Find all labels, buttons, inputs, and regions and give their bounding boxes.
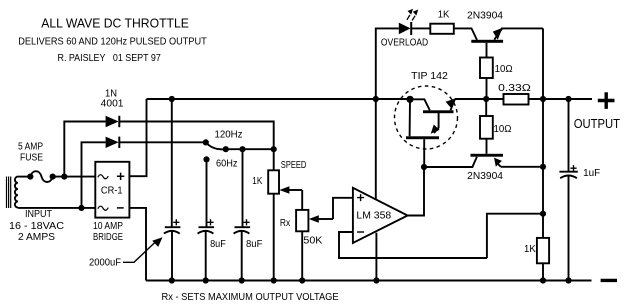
wire diode D1 cathode right then down to speed pot: [120, 122, 274, 171]
wire op-amp output right and up to Q2 base line: [408, 167, 424, 216]
wire TIP142 inner emitter down to op-amp output node: [423, 139, 425, 167]
bridge plus terminal symbol: [117, 173, 124, 180]
wire Q2 emitter right to output vertical: [501, 166, 543, 168]
junction dot rail at op-amp V-: [373, 277, 379, 283]
wire 1K to Q1 base: [454, 28, 477, 40]
wire op-amp V- pin to ground rail: [375, 233, 377, 281]
resistor R6 1K output body: [537, 238, 549, 263]
svg-text:OVERLOAD: OVERLOAD: [381, 37, 428, 48]
svg-text:1K: 1K: [252, 176, 262, 187]
svg-text:10Ω: 10Ω: [494, 124, 512, 135]
wire bridge plus output up to positive line: [129, 99, 146, 176]
wire 10ohm lower top to positive line junction: [485, 99, 487, 116]
svg-text:TIP 142: TIP 142: [411, 71, 448, 82]
svg-text:FUSE: FUSE: [20, 152, 43, 163]
wire transformer bottom to bridge AC bottom: [18, 207, 95, 209]
wire fuse to bridge AC top: [53, 176, 96, 178]
bridge minus terminal symbol: [117, 207, 124, 209]
svg-text:10Ω: 10Ω: [495, 64, 513, 75]
svg-text:5 AMP: 5 AMP: [18, 141, 43, 152]
wire 10ohm upper to positive line junction: [486, 78, 488, 99]
wire 0.33ohm right to output: [529, 98, 593, 100]
transistor Q1 2N3904 base bar: [471, 40, 503, 43]
svg-text:1K: 1K: [438, 10, 450, 21]
transistor Q2 emitter arrow from emitter wire to base bar: [494, 158, 502, 167]
svg-text:SPEED: SPEED: [281, 160, 307, 171]
junction dot rail at C1: [169, 277, 175, 283]
junction dot positive line at overload/op-amp branch: [373, 96, 379, 102]
wire 1K output bottom to ground rail: [542, 263, 544, 280]
svg-text:2N3904: 2N3904: [467, 10, 503, 21]
junction dot fuse line to diode branch: [61, 174, 67, 180]
TIP142 emitter arrow up to output line: [446, 98, 456, 110]
junction dot rail at speed pot: [271, 277, 277, 283]
junction dot rail at 1K output resistor: [540, 277, 546, 283]
svg-text:ALL WAVE DC THROTTLE: ALL WAVE DC THROTTLE: [41, 17, 189, 31]
svg-text:Rx: Rx: [280, 218, 290, 229]
LED D3 OVERLOAD: [399, 22, 411, 35]
bridge AC symbol top: [98, 175, 108, 179]
svg-text:LM 358: LM 358: [356, 210, 391, 221]
output negative terminal symbol: [601, 279, 617, 282]
Rx wiper arrow: [309, 215, 333, 223]
svg-text:BRIDGE: BRIDGE: [93, 232, 123, 243]
TIP142 outer emitter arrow down to inner base bar: [431, 113, 440, 134]
wire overload branch riser from positive line: [376, 28, 399, 99]
svg-text:2000uF: 2000uF: [89, 257, 121, 268]
TIP142 outer transistor base bar: [423, 110, 454, 113]
svg-text:8uF: 8uF: [210, 239, 226, 250]
wire Rx wiper to op-amp non-inverting input: [333, 198, 353, 219]
junction dot op-amp output node: [421, 164, 427, 170]
svg-text:R. PAISLEY 01 SEPT 97: R. PAISLEY 01 SEPT 97: [58, 52, 161, 64]
svg-text:1uF: 1uF: [583, 168, 600, 179]
capacitor C3 8uF: [234, 149, 251, 280]
wire op-amp inverting input left and down: [339, 232, 487, 258]
wire bridge minus output down to ground rail: [129, 208, 146, 281]
resistor R3 10ohm upper body: [480, 58, 493, 79]
capacitor C2 8uF: [198, 159, 215, 280]
switch 120Hz contact dot: [223, 146, 229, 152]
svg-text:1K: 1K: [524, 244, 536, 255]
svg-text:120Hz: 120Hz: [215, 130, 243, 141]
TIP142 wire dot to outer transistor base bar: [410, 99, 430, 110]
speed pot wiper arrow: [279, 186, 302, 194]
wire 120Hz contact to speed pot riser: [226, 148, 274, 150]
junction dot rail at C3: [239, 277, 245, 283]
switch 60Hz contact dot: [203, 156, 209, 162]
junction dot positive line at 10ohm resistors: [483, 96, 489, 102]
wire diode D2 cathode to switch pivot: [120, 141, 206, 143]
junction dot to capacitor C3: [239, 146, 245, 152]
op-amp U1 LM358 triangle: [353, 188, 408, 243]
junction dot output line at right vertical: [540, 96, 546, 102]
junction dot rail at C2: [203, 277, 209, 283]
op-amp non-inverting input symbol +: [357, 194, 364, 201]
TIP142 base junction dot: [406, 96, 413, 103]
TIP142 inner transistor base bar: [406, 136, 439, 139]
wire op-amp V+ pin to positive line: [375, 99, 377, 199]
svg-text:50K: 50K: [303, 235, 322, 246]
svg-text:60Hz: 60Hz: [216, 159, 238, 170]
wire transformer top to fuse: [18, 176, 30, 178]
svg-text:DELIVERS 60 AND 120Hz PULSED O: DELIVERS 60 AND 120Hz PULSED OUTPUT: [18, 36, 207, 48]
svg-text:2 AMPS: 2 AMPS: [18, 232, 55, 243]
junction dot right vertical at Q2 emitter: [540, 164, 546, 170]
svg-text:CR-1: CR-1: [101, 186, 123, 197]
TIP142 wire dot to inner transistor base bar: [409, 99, 411, 136]
fuse terminal dot right: [50, 174, 56, 180]
svg-text:2N3904: 2N3904: [467, 171, 503, 182]
diode D1 1N4001 upper: [106, 116, 120, 127]
junction dot feedback at output node: [540, 211, 546, 217]
svg-text:16 - 18VAC: 16 - 18VAC: [9, 221, 64, 232]
junction dot output line at C4: [565, 96, 571, 102]
wire positive supply line left section: [147, 98, 411, 100]
wire speed pot bottom to ground rail: [273, 194, 275, 281]
svg-text:OUTPUT: OUTPUT: [574, 116, 620, 131]
resistor R5 10ohm lower body: [480, 116, 493, 139]
wire speed pot wiper down to Rx top: [301, 190, 303, 210]
wire Rx bottom to ground rail: [301, 231, 303, 280]
svg-text:8uF: 8uF: [246, 239, 262, 250]
switch SW1 pivot dot: [203, 139, 209, 145]
svg-text:INPUT: INPUT: [25, 209, 52, 220]
junction dot rail at Rx: [299, 277, 305, 283]
svg-text:4001: 4001: [101, 99, 124, 110]
wire Q1 emitter to right vertical: [501, 27, 543, 29]
bridge label 10 AMP BRIDGE: [93, 221, 123, 243]
junction dot positive line at C1: [169, 96, 175, 102]
darlington TIP142 dashed circle: [395, 86, 458, 149]
transformer input label INPUT 16-18VAC 2 AMPS: [9, 209, 64, 243]
svg-text:0.33Ω: 0.33Ω: [498, 83, 531, 94]
bridge AC symbol bottom: [98, 206, 108, 210]
switch SW1 arm to 120Hz contact: [206, 142, 226, 149]
transformer T1 secondary winding: [7, 177, 19, 209]
wire LED cathode to 1K resistor: [411, 27, 430, 29]
wire riser bottom junction up to diode D2: [82, 142, 106, 208]
label 1N 4001: [101, 88, 124, 109]
capacitor C4 1uF: [559, 99, 577, 281]
junction dot at speed pot riser: [271, 146, 277, 152]
wire riser fuse junction up to diode D1: [64, 122, 105, 177]
wire 10ohm lower bottom to Q2 collector: [486, 139, 488, 154]
fuse terminal dot left: [27, 174, 33, 180]
junction dot rail at C4: [565, 277, 571, 283]
junction dot transformer bottom to lower diode branch: [78, 205, 84, 211]
output positive terminal symbol: [598, 92, 615, 109]
wire feedback riser up and right to output node: [487, 214, 543, 258]
wire Q1 collector down to 10ohm upper: [486, 43, 488, 58]
op-amp inverting input symbol -: [357, 231, 364, 233]
ground rail wire (bottom): [146, 280, 592, 282]
potentiometer Rx 50K body: [296, 210, 308, 231]
resistor R2 1K (overload) body: [430, 24, 454, 34]
svg-text:10 AMP: 10 AMP: [93, 221, 123, 232]
potentiometer R1 1K SPEED body: [268, 170, 279, 193]
capacitor C1 2000uF: [164, 99, 181, 281]
fuse label 5 AMP FUSE: [18, 141, 43, 163]
transistor Q1 emitter arrow to top wire: [493, 28, 503, 40]
bridge rectifier CR-1 box: [95, 162, 129, 218]
LED emission arrow 1: [407, 9, 413, 20]
transistor Q2 2N3904 base bar: [471, 154, 504, 157]
wire right vertical from Q1 emitter down to 1K output resistor: [542, 28, 544, 238]
LED emission arrow 2: [412, 10, 418, 21]
label 2000uF with pointer arrow: [89, 237, 163, 268]
diode D2 1N4001 lower: [106, 137, 120, 148]
resistor R4 0.33ohm body: [504, 94, 529, 105]
wire TIP142 emitter line right to 0.33ohm: [455, 98, 504, 100]
svg-text:Rx - SETS MAXIMUM OUTPUT VOLTA: Rx - SETS MAXIMUM OUTPUT VOLTAGE: [162, 291, 339, 303]
fuse F1 5 AMP: [30, 171, 52, 182]
wire op-amp output node to Q2 base: [424, 157, 477, 167]
